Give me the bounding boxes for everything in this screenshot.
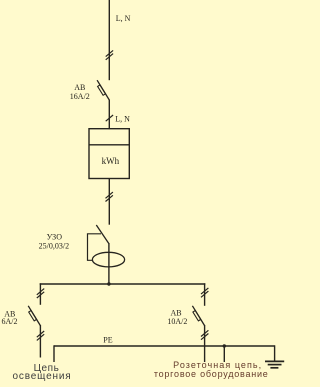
- svg-text:торговое оборудование: торговое оборудование: [154, 369, 269, 379]
- ground symbol stroke 1: [265, 360, 284, 362]
- wire: RCD to distribution bus: [108, 243, 110, 284]
- circuit breaker QF3 blade: [192, 306, 204, 326]
- ground symbol stroke 3: [270, 367, 278, 369]
- circuit breaker QF1 blade: [97, 80, 109, 100]
- wire: QF2 to lighting load: [39, 325, 41, 358]
- svg-text:6А/2: 6А/2: [2, 317, 18, 326]
- energy meter PI1 box: [89, 129, 129, 179]
- two-conductor slash marks on incoming wire: [106, 50, 113, 56]
- two-conductor slash marks below QF3: [201, 330, 208, 336]
- distribution bus: [40, 283, 206, 285]
- svg-text:16А/2: 16А/2: [70, 92, 90, 101]
- svg-text:АВ: АВ: [74, 83, 85, 92]
- slash mark L,N above meter: [106, 115, 113, 121]
- RCD (УЗО) switch blade: [96, 225, 108, 243]
- junction dot on PE: [223, 344, 226, 347]
- PE conductor: [54, 345, 275, 347]
- PE drop to lighting circuit: [53, 345, 55, 362]
- PE drop to socket circuit: [223, 346, 225, 362]
- wire: QF3 to socket load: [204, 325, 206, 362]
- wire: meter to RCD: [108, 179, 110, 225]
- RCD differential transformer ellipse: [92, 252, 124, 267]
- two-conductor slash marks below meter: [106, 192, 113, 198]
- svg-text:L, N: L, N: [115, 114, 130, 123]
- two-conductor slash marks (socket circuit): [201, 288, 208, 294]
- wire: incoming supply L,N: [108, 0, 110, 80]
- svg-text:L, N: L, N: [116, 14, 131, 23]
- svg-text:10А/2: 10А/2: [167, 317, 187, 326]
- svg-text:kWh: kWh: [102, 156, 120, 166]
- two-conductor slash marks below QF2: [37, 331, 44, 337]
- svg-text:PE: PE: [103, 335, 112, 344]
- wire: bus drop to QF3: [204, 283, 206, 306]
- PE to earth electrode: [274, 345, 276, 361]
- wire: QF1 to meter: [108, 100, 110, 130]
- junction dot on bus: [107, 282, 110, 285]
- svg-text:освещения: освещения: [13, 371, 72, 382]
- two-conductor slash marks (lighting circuit): [37, 289, 44, 295]
- RCD trip linkage loop: [88, 234, 102, 260]
- svg-text:АВ: АВ: [170, 308, 181, 317]
- ground symbol stroke 2: [268, 364, 282, 366]
- svg-text:25/0,03/2: 25/0,03/2: [39, 241, 69, 250]
- meter terminal divider: [89, 144, 129, 146]
- wire: bus drop to QF2: [39, 283, 41, 305]
- circuit breaker QF2 blade: [28, 306, 40, 326]
